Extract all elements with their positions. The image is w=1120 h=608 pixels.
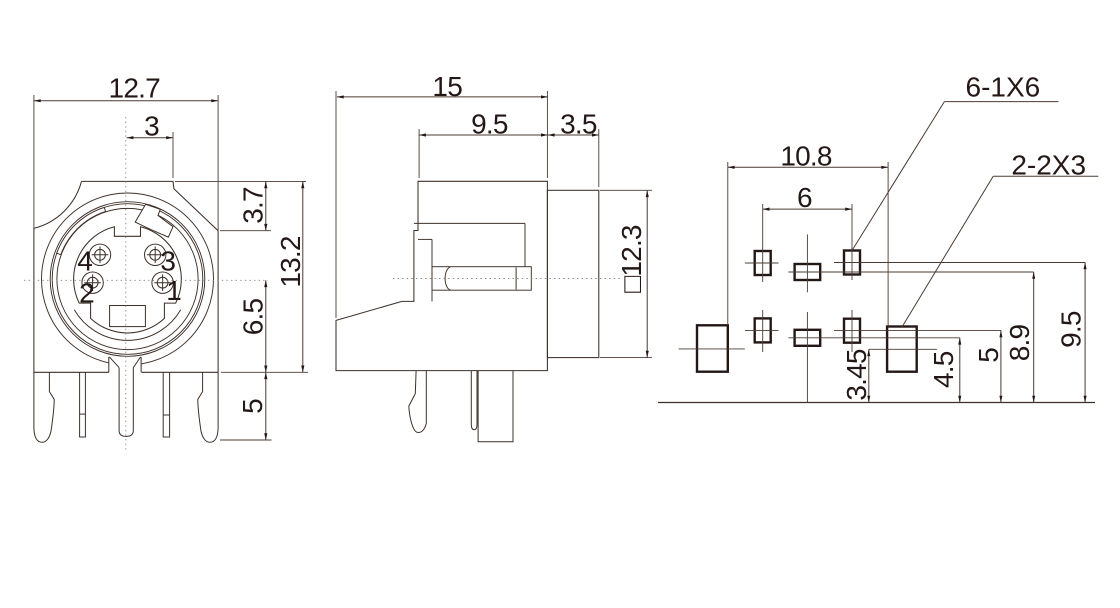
footprint pad lower-middle (795, 330, 821, 346)
dimension 13.2 (221, 371, 308, 373)
footprint: pad centerlines (762, 204, 764, 282)
front view: barrel circle 4 (57, 208, 198, 349)
footprint pad upper-middle (795, 264, 821, 280)
dimension 8.9 (788, 271, 1033, 273)
front view: right contact pin leg (163, 372, 169, 437)
dimension 3.5 (side) (598, 129, 600, 187)
dimension 3.7 (175, 180, 306, 182)
front view: plastic insert tab rectangle (110, 306, 146, 327)
side view: contact pin leg (471, 371, 477, 430)
dimension 5 (footprint) (834, 329, 1001, 331)
dimension 9.5 (side) (418, 129, 420, 178)
pin 2 circle (82, 272, 103, 293)
dimension 15 (side width) (335, 91, 337, 318)
dimension 10.8 (727, 162, 729, 325)
svg-text:3: 3 (144, 111, 159, 142)
svg-text:4.5: 4.5 (928, 351, 959, 388)
front view: spring contact arc slot (10-11 o clock) (57, 207, 106, 254)
footprint pad upper-right (844, 251, 860, 275)
dimension 4.5 (788, 337, 959, 339)
label 6-1X6 with leader (852, 102, 944, 251)
dimension 12.3 (side height) (600, 189, 652, 191)
front view: horizontal dash-dot centerline (24, 279, 268, 281)
svg-text:6.5: 6.5 (238, 299, 269, 336)
front view: metal shield opening with key notches (74, 227, 182, 333)
footprint pad lower-right (844, 319, 860, 343)
svg-text:2: 2 (79, 277, 95, 308)
svg-text:4: 4 (77, 245, 93, 276)
side view: claw leg (409, 371, 427, 433)
svg-text:15: 15 (432, 71, 462, 102)
svg-text:5: 5 (973, 348, 1004, 363)
front view: center shield solder tab (109, 357, 141, 437)
side view: shield tab leg (478, 371, 513, 442)
front view: rim circle 3 (52, 204, 203, 355)
svg-text:6-1X6: 6-1X6 (966, 71, 1041, 102)
side view: front barrel (547, 190, 598, 357)
footprint: right mounting slot (887, 327, 917, 372)
footprint pad lower-left (755, 318, 771, 342)
front view: connector body outline (34, 181, 218, 372)
label 2-2X3 with leader (902, 176, 993, 327)
svg-text:9.5: 9.5 (1055, 311, 1086, 348)
svg-text:3.45: 3.45 (841, 349, 872, 401)
footprint: baseline (658, 402, 1095, 404)
footprint pad upper-left (755, 251, 771, 275)
dimension 12.7 (front width) (33, 95, 35, 230)
svg-text:8.9: 8.9 (1004, 325, 1035, 362)
svg-text:9.5: 9.5 (471, 109, 508, 140)
front view: left mounting claw leg (34, 372, 54, 442)
side view: body outline (336, 181, 547, 370)
side view: center contact pin (432, 267, 531, 291)
side view: inner step lines (414, 222, 525, 224)
pin 1 circle (152, 272, 173, 293)
pin 3 circle (145, 244, 166, 265)
front view: vertical dash-dot centerline (125, 117, 127, 450)
svg-text:13.2: 13.2 (275, 236, 306, 288)
svg-text:5: 5 (237, 399, 268, 414)
front view: shield ring lower arc (74, 310, 180, 341)
dimension 6.5 (265, 280, 267, 372)
dimension 5 (front legs) (220, 439, 272, 441)
front view: left contact pin leg (80, 372, 86, 437)
svg-text:1: 1 (166, 275, 182, 306)
side view: horizontal dash-dot centerline (393, 278, 622, 280)
svg-text:2-2X3: 2-2X3 (1011, 150, 1086, 181)
svg-text:□12.3: □12.3 (616, 225, 647, 293)
footprint: left mounting slot (697, 325, 728, 371)
svg-text:6: 6 (797, 182, 812, 213)
dimension 3.45 (869, 348, 937, 350)
front view: rim circle 2 (50, 202, 205, 357)
svg-text:3.7: 3.7 (238, 187, 269, 224)
svg-text:12.7: 12.7 (109, 73, 161, 104)
svg-text:10.8: 10.8 (780, 140, 832, 171)
svg-text:3: 3 (160, 245, 176, 276)
front view: outer flange circle (42, 193, 214, 365)
front view: keyway slot (tilted rectangle, 1-2 o clock) (135, 204, 173, 237)
front view: right mounting claw leg (198, 372, 218, 442)
svg-text:3.5: 3.5 (560, 109, 597, 140)
dimension 9.5 (footprint) (834, 262, 1085, 264)
dimension 6 (763, 208, 852, 210)
pin 4 circle (89, 244, 110, 265)
dimension 3 (top notch) (172, 132, 174, 178)
